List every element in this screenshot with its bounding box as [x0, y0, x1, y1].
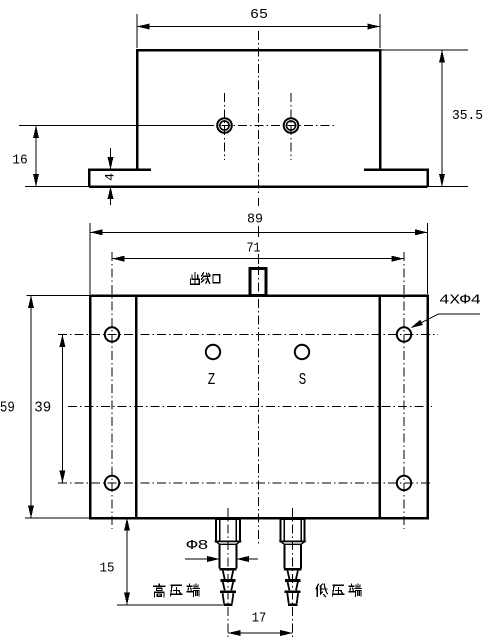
svg-text:17: 17 — [252, 611, 267, 627]
dimension 65 — [137, 7, 380, 48]
hole top-left centerlines — [58, 252, 438, 529]
right nozzle centerline — [292, 508, 294, 638]
dimension 17 — [228, 611, 293, 637]
svg-text:39: 39 — [34, 400, 51, 417]
svg-text:S: S — [299, 370, 307, 389]
hole right vertical centerline — [403, 252, 405, 529]
main rectangle — [90, 296, 428, 519]
dimension 16 — [12, 126, 39, 187]
middle horizontal centerline — [68, 406, 432, 408]
mounting hole top-right — [397, 327, 411, 341]
body right wall — [379, 49, 382, 170]
svg-text:Z: Z — [208, 370, 216, 389]
dimension 35.5 — [439, 50, 483, 187]
svg-text:16: 16 — [12, 153, 28, 169]
svg-text:89: 89 — [247, 212, 263, 228]
svg-text:65: 65 — [250, 7, 268, 23]
screw 1 — [217, 118, 232, 133]
screw 2 vertical centerline — [290, 93, 292, 160]
right flange line — [378, 296, 381, 519]
mounting hole bottom-right — [397, 476, 411, 490]
dimension 59 — [0, 296, 89, 519]
label 高压端 — [154, 584, 200, 597]
svg-text:Φ8: Φ8 — [187, 538, 209, 554]
dimension 89 — [90, 212, 428, 295]
hole Z — [206, 345, 220, 389]
dimension 39 — [34, 335, 65, 484]
hole S — [295, 345, 309, 389]
svg-text:4XΦ4: 4XΦ4 — [439, 293, 481, 309]
mounting hole top-left — [105, 327, 119, 341]
left nozzle — [216, 519, 240, 605]
svg-text:15: 15 — [100, 561, 115, 577]
svg-text:35.5: 35.5 — [452, 108, 483, 124]
svg-text:59: 59 — [0, 400, 15, 417]
screw 2 — [284, 118, 299, 133]
svg-text:71: 71 — [247, 241, 261, 257]
left flange — [89, 169, 151, 187]
left flange line — [135, 296, 138, 519]
cable outlet rectangle — [250, 269, 266, 296]
body top edge — [137, 49, 469, 52]
baseline — [25, 186, 468, 188]
lower holes horizontal centerline — [58, 482, 430, 484]
mounting hole bottom-left — [105, 476, 119, 490]
main vertical centerline (top view) — [258, 31, 260, 195]
dimension 15 — [100, 518, 224, 605]
label 4xPhi4 with leader — [411, 293, 482, 329]
left nozzle centerline — [227, 508, 229, 638]
svg-text:4: 4 — [103, 173, 118, 181]
screw 1 vertical centerline — [224, 93, 226, 160]
right nozzle — [281, 519, 305, 605]
dimension 71 — [112, 241, 404, 262]
label 出线口 — [191, 273, 220, 284]
body left wall — [136, 49, 139, 170]
dimension Phi8 — [185, 538, 258, 562]
central vertical centerline (bottom view) — [258, 198, 260, 206]
right flange — [364, 169, 428, 187]
dimension 4 — [103, 148, 118, 205]
label 低压端 — [316, 584, 361, 597]
screw horizontal centerline — [19, 125, 205, 127]
